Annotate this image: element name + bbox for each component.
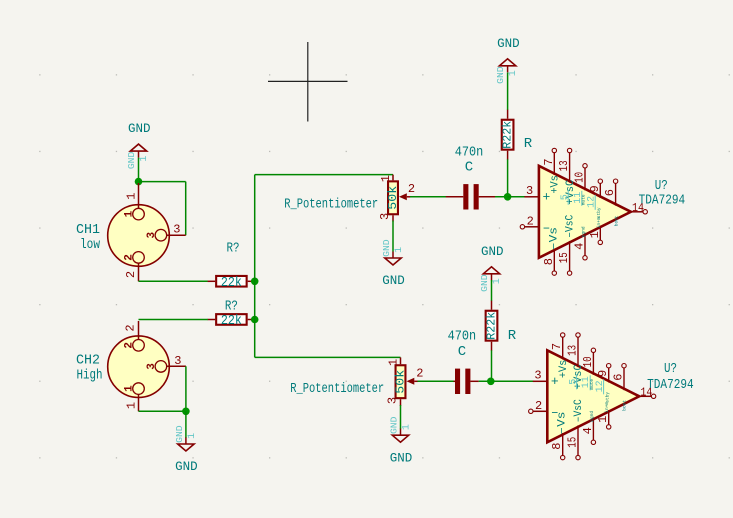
label R_Potentiometer (top) [284,197,378,213]
svg-text:3: 3 [386,397,400,404]
label C (top) [465,160,473,176]
svg-text:2: 2 [124,271,138,278]
svg-text:13: 13 [566,345,580,356]
CH2 pin 1 [125,395,139,412]
label R_Potentiometer (bottom) [290,381,384,397]
svg-text:15: 15 [557,252,571,263]
capacitor C? 470n (top) [446,184,495,209]
label TDA7294 (top) [639,193,686,209]
svg-text:7: 7 [550,343,564,350]
svg-text:GND: GND [382,273,405,288]
svg-text:GND: GND [390,450,413,465]
svg-text:TDA7294: TDA7294 [647,377,694,393]
CH2 pin 3 [167,354,186,368]
svg-text:GND: GND [381,239,392,257]
svg-text:C: C [458,344,466,360]
svg-text:2: 2 [527,214,534,228]
svg-text:R: R [508,328,517,344]
svg-text:15: 15 [566,437,580,448]
svg-text:3: 3 [526,184,533,198]
label R (top) [524,136,533,152]
svg-text:mute: mute [589,379,595,390]
svg-text:470n: 470n [448,329,477,345]
svg-text:R_Potentiometer: R_Potentiometer [290,381,384,397]
wire GND to R22k(bottom) [491,280,493,301]
pot1 pin 3 [378,213,393,222]
svg-text:4: 4 [573,243,587,250]
wire bus vertical (mix node) [254,175,256,358]
resistor R? 22k (bottom) [208,314,255,329]
svg-text:mute: mute [581,194,587,205]
svg-text:pgnd: pgnd [580,226,586,237]
svg-text:1: 1 [492,278,503,284]
label R? (R1) [227,241,240,257]
svg-text:2: 2 [124,254,136,261]
svg-text:3: 3 [378,213,392,220]
wire CH1 junction to pin3 corner [139,181,186,183]
junction node opamp2 input [487,378,495,386]
op-amp U? TDA7294 (bottom) [529,333,656,460]
svg-text:GND: GND [479,274,490,292]
resistor R? R22k (bottom) [485,301,499,351]
power symbol GND above R22k bottom (pin 1) [479,244,504,292]
label R (bottom) [508,328,517,344]
wire CH2 pin1 to junction [139,410,186,412]
svg-text:R22k: R22k [501,121,515,149]
svg-text:low: low [80,237,100,253]
label U? (bottom) [664,361,677,377]
label C (bottom) [458,344,466,360]
power symbol GND at CH1 (pin 1) [126,121,151,169]
label U? (top) [655,178,668,194]
resistor R? 22k (top) [208,276,255,291]
svg-text:1: 1 [387,359,401,366]
svg-text:–VsC: –VsC [565,214,577,237]
wire CH2 pin2 to R2 [139,319,208,321]
svg-text:8: 8 [550,442,564,449]
svg-text:22k: 22k [221,276,242,291]
svg-text:5: 5 [560,194,571,200]
pot1 pin 2 wiper [399,182,415,200]
svg-text:R: R [524,136,533,152]
CH1 pin 3 [167,222,186,236]
svg-text:2: 2 [416,367,423,381]
wire GND to R22k(top) [507,73,509,111]
wire GND to CH1 junction [138,158,140,182]
svg-text:U?: U? [664,361,677,377]
connector CH2 High (XLR bottom) [108,336,170,398]
svg-text:TDA7294: TDA7294 [639,193,686,209]
connector CH1 low (XLR top) [108,205,170,267]
capacitor C? 470n (bottom) [454,369,479,394]
pot2 pin 1 [387,357,401,366]
svg-text:3: 3 [534,369,541,383]
svg-text:GND: GND [388,416,399,434]
wire CH1 pin2 to R1 [139,280,208,282]
wire to pot1 pin1 [255,174,393,176]
junction node CH2 ground [182,408,190,416]
wire R22k(top) to junction [507,159,509,194]
svg-text:R?: R? [225,299,238,315]
resistor R? R22k (top) [501,110,515,160]
svg-text:High: High [77,368,103,384]
svg-text:U?: U? [655,178,668,194]
svg-text:–Vs: –Vs [557,412,569,435]
label CH2 [76,353,100,369]
svg-text:9: 9 [596,370,610,377]
svg-text:1: 1 [124,385,136,392]
pot1 pin 1 [379,175,393,183]
label R? (R2) [225,299,238,315]
junction node opamp1 input [504,193,512,201]
svg-text:1: 1 [139,156,150,162]
svg-text:12: 12 [595,380,606,392]
svg-text:22k: 22k [221,314,242,329]
svg-text:1: 1 [588,231,602,238]
CH1 pin 2 [124,263,138,281]
CH1 pin 1 [125,183,139,209]
svg-text:1: 1 [596,416,610,423]
svg-text:12: 12 [587,196,598,208]
wire pot2 wiper to C2 [418,380,454,382]
wire pot1 pin3 to GND [392,221,394,252]
svg-text:2: 2 [124,342,136,349]
svg-text:CH2: CH2 [76,353,100,369]
svg-text:1: 1 [401,424,412,430]
label low [80,237,100,253]
svg-text:+Vs: +Vs [558,360,570,379]
wire CH2 pin3 down [185,366,187,411]
svg-text:50k: 50k [394,370,407,394]
svg-text:4: 4 [581,427,595,434]
CH2 pin 2 [124,321,139,340]
svg-text:GND: GND [128,121,151,136]
power symbol GND below pot2 (pin 1) [388,416,412,465]
wire C1 to junction [495,196,524,198]
potentiometer RV? R_Potentiometer 50k (top) [387,181,400,214]
svg-text:1: 1 [125,402,139,409]
svg-text:pgnd: pgnd [589,411,595,422]
svg-text:in+m: in+m [596,217,602,228]
svg-text:470n: 470n [455,145,484,161]
svg-text:C: C [465,160,473,176]
svg-text:1: 1 [124,210,136,217]
svg-text:GND: GND [495,66,506,84]
svg-text:R?: R? [227,241,240,257]
label High [77,368,103,384]
power symbol GND below pot1 (pin 1) [381,239,405,288]
svg-text:GND: GND [175,459,198,474]
svg-text:9: 9 [588,185,602,192]
wire C2 to junction [479,380,534,382]
svg-text:stby: stby [604,392,610,403]
power symbol GND at CH2 (pin 1) [174,425,198,474]
wire pot1 wiper to C1 [410,196,446,198]
power symbol GND above R22k top (pin 1) [495,36,520,84]
op-amp U? TDA7294 (top) [520,148,647,275]
svg-text:GND: GND [481,244,504,259]
junction node at CH1 pin1/GND [135,178,143,186]
label TDA7294 (bottom) [647,377,694,393]
label CH1 [76,222,100,238]
pot2 pin 3 [386,397,401,406]
svg-text:50k: 50k [387,186,400,210]
svg-text:3: 3 [173,222,180,236]
svg-text:+Vs: +Vs [550,175,562,194]
svg-text:8: 8 [542,258,556,265]
svg-text:boot: boot [622,400,628,411]
svg-text:1: 1 [394,247,405,253]
svg-text:GND: GND [174,425,185,443]
svg-text:R_Potentiometer: R_Potentiometer [284,197,378,213]
svg-text:GND: GND [497,36,520,51]
svg-text:–VsC: –VsC [573,399,585,422]
svg-text:R22k: R22k [485,312,499,340]
svg-text:2: 2 [535,399,542,413]
svg-text:7: 7 [542,158,556,165]
svg-text:2: 2 [408,182,415,196]
svg-text:5: 5 [568,379,579,385]
svg-text:13: 13 [557,160,571,171]
junction node R1 output [251,278,259,286]
svg-text:1: 1 [125,193,139,200]
svg-text:2: 2 [124,324,138,331]
svg-text:3: 3 [146,232,158,239]
wire junction to U1 pin3 [508,196,525,198]
svg-text:stby: stby [596,207,602,218]
svg-text:1: 1 [379,175,393,182]
svg-text:GND: GND [126,151,137,169]
label 470n (bottom) [448,329,477,345]
svg-text:1: 1 [508,70,519,76]
svg-text:in+m: in+m [604,402,610,413]
potentiometer RV? R_Potentiometer 50k (bottom) [394,365,407,398]
svg-text:boot: boot [613,215,619,226]
wire to pot2 pin1 [255,356,401,358]
wire corner down to CH1 pin3 [185,182,187,236]
svg-text:CH1: CH1 [76,222,100,238]
pot2 pin 2 wiper [407,367,424,385]
wire pot2 pin3 to GND [400,405,402,429]
svg-text:–Vs: –Vs [548,227,560,250]
cursor crosshair [268,42,348,122]
wire junction to GND [185,411,187,438]
svg-text:6: 6 [612,374,626,381]
svg-text:3: 3 [146,363,158,370]
wire R22k(bottom) to junction [491,350,493,378]
svg-text:3: 3 [174,354,181,368]
svg-text:6: 6 [603,189,617,196]
label 470n (top) [455,145,484,161]
junction node R2 output [251,316,259,324]
svg-text:1: 1 [187,433,198,439]
